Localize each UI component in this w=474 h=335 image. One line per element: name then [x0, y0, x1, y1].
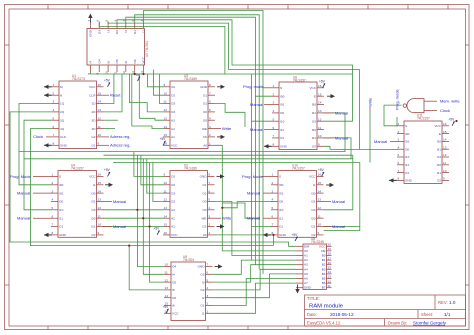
- svg-text:5: 5: [53, 116, 55, 120]
- svg-text:7: 7: [52, 223, 54, 227]
- svg-text:7: 7: [209, 181, 211, 185]
- svg-text:Stomfai Gergely: Stomfai Gergely: [413, 321, 447, 326]
- svg-text:Drawn By:: Drawn By:: [388, 321, 407, 326]
- svg-text:5: 5: [209, 198, 211, 202]
- svg-text:O0: O0: [202, 208, 206, 212]
- svg-text:10: 10: [98, 133, 102, 137]
- svg-text:I20: I20: [311, 216, 316, 220]
- wire m4 to U2 pin12: [153, 163, 163, 202]
- svg-text:+5V: +5V: [104, 79, 111, 83]
- svg-text:15: 15: [318, 92, 322, 96]
- wire U9 o to U8 A3: [213, 265, 297, 282]
- svg-text:16: 16: [98, 83, 102, 87]
- svg-text:I10: I10: [405, 155, 410, 159]
- svg-text:5: 5: [272, 206, 274, 210]
- svg-text:4: 4: [273, 109, 275, 113]
- junction bus v3: [149, 225, 151, 227]
- svg-text:S: S: [59, 175, 61, 179]
- IC U10 74LS157 multiplexer: [271, 164, 324, 238]
- svg-text:1: 1: [398, 122, 400, 126]
- svg-text:O1: O1: [200, 304, 204, 308]
- svg-text:OE: OE: [321, 249, 325, 253]
- svg-text:13: 13: [165, 286, 169, 290]
- svg-text:O3: O3: [437, 155, 441, 159]
- wire 1Q to U4: [19, 104, 52, 185]
- svg-text:I01: I01: [59, 191, 64, 195]
- frame ruler ticks top: [48, 5, 448, 10]
- svg-text:8: 8: [273, 143, 275, 147]
- label stub lines: [33, 88, 397, 227]
- svg-text:74LS157: 74LS157: [71, 167, 84, 171]
- svg-text:I30: I30: [311, 191, 316, 195]
- IC U11 74LS157 multiplexer: [397, 114, 449, 184]
- wire m1 to U2 pin9: [134, 152, 163, 177]
- svg-text:S: S: [279, 175, 281, 179]
- svg-text:6: 6: [398, 161, 400, 165]
- svg-text:3: 3: [53, 100, 55, 104]
- svg-text:I31: I31: [312, 111, 317, 115]
- svg-text:I5: I5: [106, 61, 110, 64]
- svg-text:B3: B3: [322, 267, 326, 271]
- svg-text:A3: A3: [171, 208, 175, 212]
- +5V at U3 VCC: [160, 137, 167, 145]
- svg-text:VCC: VCC: [309, 86, 316, 90]
- wire 4Q trunk: [30, 129, 273, 246]
- svg-text:6: 6: [273, 126, 275, 130]
- svg-text:2Q: 2Q: [60, 110, 65, 114]
- svg-text:10: 10: [164, 181, 168, 185]
- svg-text:15: 15: [98, 181, 102, 185]
- svg-text:O0: O0: [59, 200, 63, 204]
- ground arrow U1 GND: [44, 144, 51, 146]
- wire m2 to U2 pin10: [141, 155, 163, 185]
- svg-text:I30: I30: [91, 191, 96, 195]
- wire trunk m1: [19, 128, 345, 152]
- svg-text:13: 13: [164, 206, 168, 210]
- svg-text:6: 6: [272, 214, 274, 218]
- svg-text:2: 2: [209, 133, 211, 137]
- svg-text:REV:: REV:: [438, 300, 448, 305]
- junction bus v2: [142, 217, 144, 219]
- svg-text:B5: B5: [322, 277, 326, 281]
- svg-text:GND: GND: [200, 175, 208, 179]
- svg-text:CLK: CLK: [60, 135, 67, 139]
- svg-text:B7: B7: [322, 286, 326, 290]
- svg-text:2: 2: [273, 92, 275, 96]
- svg-text:I00: I00: [405, 132, 410, 136]
- ground arrow U8 GND: [295, 289, 299, 294]
- svg-text:O2: O2: [200, 288, 204, 292]
- svg-text:74LS157: 74LS157: [293, 79, 306, 83]
- svg-text:9: 9: [318, 231, 320, 235]
- +5V at U11 VCC: [449, 118, 456, 126]
- svg-text:I20: I20: [91, 216, 96, 220]
- wire U9 o to U8 A2: [213, 260, 297, 274]
- svg-text:O1: O1: [405, 171, 409, 175]
- svg-text:10: 10: [105, 71, 109, 75]
- svg-text:Write: Write: [368, 97, 373, 107]
- svg-text:14: 14: [164, 214, 168, 218]
- svg-text:Manual: Manual: [332, 199, 345, 204]
- svg-text:O1: O1: [202, 191, 206, 195]
- +5V at U5 VCC: [134, 73, 141, 81]
- svg-text:I1: I1: [202, 312, 205, 316]
- svg-text:B2: B2: [322, 263, 326, 267]
- wire trunk t3: [90, 72, 352, 74]
- svg-text:74LS173: 74LS173: [72, 77, 85, 81]
- wire branch to U10 O0: [222, 202, 272, 208]
- wire to U3 pin10: [154, 70, 164, 96]
- wire U2 A0 right: [215, 234, 274, 236]
- svg-text:I4: I4: [172, 273, 175, 277]
- svg-text:11: 11: [318, 214, 321, 218]
- svg-text:10: 10: [318, 134, 322, 138]
- svg-text:O4: O4: [172, 265, 176, 269]
- svg-text:I20: I20: [312, 128, 317, 132]
- svg-text:O0: O0: [203, 110, 207, 114]
- svg-text:+5V: +5V: [154, 227, 161, 231]
- svg-text:O5: O5: [172, 280, 176, 284]
- svg-text:Manual: Manual: [335, 110, 348, 115]
- wire to U3 pin9: [148, 74, 164, 87]
- svg-text:Write: Write: [222, 216, 232, 221]
- svg-text:A7: A7: [304, 281, 308, 285]
- svg-text:14: 14: [443, 138, 447, 142]
- svg-text:I11: I11: [405, 163, 409, 167]
- svg-text:N: N: [60, 93, 62, 97]
- svg-text:3: 3: [122, 20, 126, 22]
- svg-text:S: S: [405, 124, 407, 128]
- svg-text:6: 6: [53, 125, 55, 129]
- svg-text:13: 13: [443, 145, 447, 149]
- svg-text:I31: I31: [311, 200, 316, 204]
- svg-text:I30: I30: [312, 103, 317, 107]
- svg-text:I5: I5: [172, 288, 175, 292]
- svg-text:G1: G1: [91, 144, 95, 148]
- svg-text:5: 5: [207, 278, 209, 282]
- svg-text:+5V: +5V: [163, 305, 170, 309]
- wire to U6 I00: [255, 95, 272, 97]
- svg-text:O3: O3: [312, 119, 316, 123]
- svg-text:5: 5: [273, 117, 275, 121]
- svg-text:I3: I3: [202, 280, 205, 284]
- svg-text:I01: I01: [405, 140, 410, 144]
- svg-text:3: 3: [272, 189, 274, 193]
- svg-text:I1: I1: [142, 30, 146, 33]
- wire Write vertical: [369, 112, 371, 163]
- svg-text:2: 2: [52, 181, 54, 185]
- svg-text:7: 7: [209, 91, 211, 95]
- svg-text:6: 6: [96, 20, 100, 22]
- svg-text:O3: O3: [171, 110, 175, 114]
- svg-text:1: 1: [209, 142, 211, 146]
- wire 2Q trunk to U8 DIR: [10, 112, 296, 246]
- wire U3 A0 down to U8 A0: [215, 145, 296, 251]
- svg-text:+5V: +5V: [318, 168, 325, 172]
- svg-text:Clock: Clock: [33, 134, 43, 139]
- svg-text:9: 9: [96, 73, 100, 75]
- +5V at U9 VCC: [163, 305, 170, 313]
- svg-text:Clock: Clock: [440, 108, 450, 113]
- svg-text:11: 11: [318, 126, 321, 130]
- wire U3 O1 jog: [215, 104, 245, 113]
- ground arrow U1 pin M: [44, 86, 51, 88]
- wire U9 o to U8 A7: [213, 283, 297, 313]
- svg-text:2: 2: [207, 302, 209, 306]
- svg-text:Manual: Manual: [335, 135, 348, 140]
- svg-text:GND: GND: [59, 233, 67, 237]
- svg-text:E: E: [313, 183, 315, 187]
- IC U8 74LS245 transceiver: [296, 237, 332, 290]
- svg-text:4: 4: [209, 116, 211, 120]
- svg-text:E: E: [439, 132, 441, 136]
- svg-text:CS: CS: [202, 225, 206, 229]
- svg-text:4: 4: [272, 198, 274, 202]
- svg-text:A5: A5: [304, 272, 308, 276]
- wire to U11 pin4: [330, 148, 398, 150]
- ground arrow U11 GND: [389, 179, 396, 181]
- svg-text:O0: O0: [203, 118, 207, 122]
- svg-text:8: 8: [209, 83, 211, 87]
- svg-text:O3: O3: [171, 200, 175, 204]
- svg-text:Write: Write: [222, 126, 232, 131]
- svg-text:11: 11: [113, 71, 117, 74]
- svg-text:12: 12: [328, 279, 332, 283]
- svg-text:13: 13: [164, 116, 168, 120]
- wire to U10 O1: [252, 226, 273, 228]
- svg-text:CLR: CLR: [89, 93, 96, 97]
- svg-text:1.0: 1.0: [449, 300, 456, 305]
- svg-text:6: 6: [209, 100, 211, 104]
- wire U6 manual box: [324, 113, 346, 128]
- IC U2 74LS189 RAM: [163, 164, 215, 238]
- svg-text:Adress reg.: Adress reg.: [110, 143, 130, 148]
- svg-text:13: 13: [318, 198, 322, 202]
- svg-text:7: 7: [272, 223, 274, 227]
- svg-text:O2: O2: [171, 175, 175, 179]
- svg-text:74LS157: 74LS157: [292, 167, 305, 171]
- svg-text:I00: I00: [280, 94, 285, 98]
- svg-text:VCC: VCC: [171, 144, 178, 148]
- svg-text:O2: O2: [91, 233, 95, 237]
- svg-text:B6: B6: [322, 281, 326, 285]
- junction trunk b3: [128, 245, 130, 247]
- svg-text:+5V: +5V: [104, 168, 111, 172]
- svg-text:12: 12: [122, 71, 126, 75]
- wire to U3 pin13 staircase: [139, 74, 163, 120]
- ground arrow U6 GND: [264, 145, 271, 147]
- svg-text:I21: I21: [437, 171, 442, 175]
- svg-text:13: 13: [328, 275, 332, 279]
- +5V at U6 VCC: [319, 80, 326, 88]
- svg-text:GND: GND: [405, 179, 413, 183]
- svg-text:O0: O0: [405, 147, 409, 151]
- svg-text:7: 7: [398, 169, 400, 173]
- svg-text:I31: I31: [437, 147, 442, 151]
- svg-text:GND: GND: [200, 85, 208, 89]
- wire 3Q to U4: [24, 120, 52, 210]
- svg-text:16: 16: [98, 173, 102, 177]
- wire prog mode stub2: [396, 117, 398, 126]
- svg-text:O1: O1: [133, 30, 137, 34]
- ground arrow U5 GND: [88, 14, 92, 19]
- svg-text:WE: WE: [202, 127, 207, 131]
- frame ruler ticks left: [5, 45, 10, 285]
- svg-text:12: 12: [165, 278, 169, 282]
- svg-text:12: 12: [443, 153, 447, 157]
- svg-text:RAM module: RAM module: [309, 304, 344, 310]
- svg-text:+5V: +5V: [160, 137, 167, 141]
- ground arrow U4 E: [109, 183, 114, 187]
- wire A0 link: [222, 203, 259, 218]
- svg-text:3: 3: [209, 125, 211, 129]
- svg-text:DIR: DIR: [304, 244, 310, 248]
- ground arrow U9 GND: [218, 264, 223, 268]
- junction +5V b: [142, 73, 144, 75]
- svg-text:17: 17: [328, 256, 332, 260]
- svg-text:Manual: Manual: [113, 224, 126, 229]
- svg-text:WE: WE: [202, 216, 207, 220]
- svg-text:13: 13: [98, 198, 102, 202]
- ground arrow U6 E: [331, 94, 336, 98]
- svg-text:A1: A1: [304, 254, 308, 258]
- svg-text:16: 16: [318, 84, 322, 88]
- svg-text:A2: A2: [171, 216, 175, 220]
- svg-text:VCC: VCC: [171, 233, 178, 237]
- svg-text:10: 10: [164, 91, 168, 95]
- svg-text:2018-05-12: 2018-05-12: [330, 312, 354, 317]
- ground arrow U3 GND: [221, 85, 226, 89]
- svg-text:I4: I4: [89, 61, 93, 64]
- svg-text:2: 2: [398, 130, 400, 134]
- wire bus v1 to U9: [137, 155, 164, 266]
- svg-text:GND: GND: [198, 265, 206, 269]
- svg-text:1: 1: [273, 84, 275, 88]
- svg-text:I20: I20: [437, 163, 442, 167]
- wire U2 O0 to U8 A1: [215, 202, 297, 256]
- svg-text:O0: O0: [279, 200, 283, 204]
- svg-text:O0: O0: [202, 200, 206, 204]
- wire gate out stub: [384, 104, 402, 106]
- svg-text:GND: GND: [304, 286, 312, 290]
- svg-text:8: 8: [398, 177, 400, 181]
- svg-text:I00: I00: [279, 183, 284, 187]
- svg-text:74LS189: 74LS189: [184, 167, 197, 171]
- svg-text:TITLE:: TITLE:: [307, 296, 320, 301]
- svg-text:I21: I21: [311, 225, 316, 229]
- svg-text:Manual: Manual: [17, 216, 30, 221]
- wire to U3 pin12 staircase: [130, 74, 164, 112]
- wire cluster v4: [251, 74, 253, 260]
- +5V at U1 VCC: [104, 79, 111, 87]
- wire U9 o to U8 A4: [213, 269, 297, 290]
- wire U9 o to U8 A5: [213, 274, 297, 298]
- svg-text:14: 14: [164, 125, 168, 129]
- svg-text:A2: A2: [171, 127, 175, 131]
- svg-text:11: 11: [98, 214, 101, 218]
- svg-text:1: 1: [52, 173, 54, 177]
- wire U4 O3 to U2 A3: [103, 209, 163, 211]
- wire U1 4D stub: [104, 128, 116, 130]
- svg-text:20: 20: [328, 243, 332, 247]
- svg-text:+5V: +5V: [292, 233, 299, 237]
- svg-text:U5 74LS04: U5 74LS04: [145, 41, 149, 57]
- svg-text:4: 4: [398, 145, 400, 149]
- svg-text:8: 8: [87, 73, 91, 75]
- svg-text:6: 6: [207, 271, 209, 275]
- ground arrow U4 GND: [44, 234, 51, 236]
- svg-text:O2: O2: [437, 179, 441, 183]
- svg-text:O3: O3: [171, 191, 175, 195]
- wire jog down: [244, 112, 246, 127]
- svg-text:12: 12: [164, 108, 168, 112]
- junction +5V a: [134, 73, 136, 75]
- svg-text:A1: A1: [171, 225, 175, 229]
- svg-text:6: 6: [52, 214, 54, 218]
- svg-text:I21: I21: [91, 225, 96, 229]
- svg-text:VCC: VCC: [89, 175, 96, 179]
- svg-text:9: 9: [318, 143, 320, 147]
- svg-text:GND: GND: [89, 29, 93, 37]
- svg-text:9: 9: [164, 83, 166, 87]
- svg-text:GND: GND: [60, 144, 68, 148]
- svg-text:Date:: Date:: [307, 312, 317, 317]
- svg-text:14: 14: [165, 294, 169, 298]
- svg-text:74LS157: 74LS157: [417, 117, 430, 121]
- svg-text:O1: O1: [279, 225, 283, 229]
- svg-text:Manual: Manual: [250, 127, 263, 132]
- svg-text:10: 10: [165, 263, 169, 267]
- svg-text:4: 4: [209, 206, 211, 210]
- svg-text:15: 15: [318, 181, 322, 185]
- wire trunk m3 to U10 O3: [24, 159, 353, 210]
- wire U2 A0 junction drop: [273, 235, 275, 246]
- svg-text:I01: I01: [280, 103, 285, 107]
- svg-text:8: 8: [53, 142, 55, 146]
- svg-text:Reset: Reset: [110, 93, 121, 98]
- svg-text:O1: O1: [203, 102, 207, 106]
- svg-text:16: 16: [328, 261, 332, 265]
- svg-text:A3: A3: [171, 118, 175, 122]
- svg-text:CS: CS: [203, 135, 207, 139]
- wire VCC riser a: [134, 72, 136, 74]
- svg-text:O3: O3: [91, 208, 95, 212]
- svg-text:10: 10: [443, 169, 447, 173]
- junction bus v1: [136, 209, 138, 211]
- svg-text:O3: O3: [311, 208, 315, 212]
- svg-text:5: 5: [209, 108, 211, 112]
- IC U3 74LS189 RAM: [163, 74, 215, 149]
- wire net D1 top: [126, 17, 256, 265]
- svg-text:B4: B4: [322, 272, 326, 276]
- wire U5 to U1 1D: [104, 74, 114, 104]
- svg-text:Prog. Mode: Prog. Mode: [10, 174, 31, 179]
- svg-text:O3: O3: [200, 273, 204, 277]
- svg-text:7: 7: [273, 134, 275, 138]
- svg-text:O2: O2: [171, 183, 175, 187]
- ground arrow U10 GND: [263, 234, 270, 236]
- svg-text:VCC: VCC: [319, 244, 326, 248]
- svg-text:11: 11: [164, 189, 167, 193]
- svg-text:O1: O1: [203, 93, 207, 97]
- svg-text:+5V: +5V: [449, 118, 456, 122]
- svg-text:I11: I11: [280, 128, 284, 132]
- svg-text:11: 11: [164, 100, 167, 104]
- svg-text:O3: O3: [97, 30, 101, 34]
- svg-text:1/1: 1/1: [444, 312, 451, 317]
- svg-text:I2: I2: [124, 30, 128, 33]
- svg-text:I21: I21: [312, 136, 317, 140]
